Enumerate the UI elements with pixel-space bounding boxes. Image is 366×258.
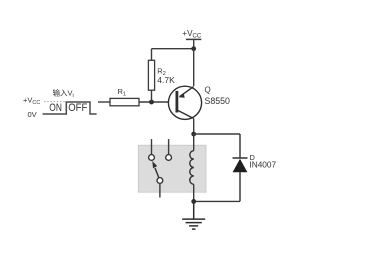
relay coil [190, 151, 194, 185]
svg-text:S8550: S8550 [205, 96, 231, 106]
svg-text:OFF: OFF [68, 102, 87, 114]
svg-text:0V: 0V [28, 110, 37, 119]
input waveform pulse [43, 102, 97, 114]
svg-text:R1: R1 [118, 87, 126, 98]
dotted Vcc reference line [44, 101, 66, 103]
relay body box [138, 145, 206, 192]
relay contact circle 3 [157, 178, 163, 184]
wire collector to coil [193, 134, 195, 151]
wire collector to diode top [194, 133, 240, 135]
svg-text:IN4007: IN4007 [249, 160, 276, 170]
node collector junction [191, 132, 196, 137]
node base junction [149, 100, 154, 105]
wire collector down [193, 119, 195, 135]
wire coil to ground node [193, 184, 195, 201]
svg-text:输入Vi: 输入Vi [53, 88, 74, 100]
svg-text:+VCC: +VCC [182, 29, 202, 40]
wire Vcc rail horizontal [152, 48, 195, 50]
wire Vcc junction to emitter [193, 49, 195, 86]
wire Vcc bar to junction [193, 39, 195, 48]
node Vcc junction [191, 46, 196, 51]
svg-text:Q: Q [205, 86, 211, 95]
wire ground node to diode bottom [194, 200, 240, 202]
relay contact circle 2 [166, 155, 172, 161]
svg-text:4.7K: 4.7K [157, 75, 175, 85]
ground [182, 201, 205, 229]
svg-text:ON: ON [49, 102, 62, 114]
relay switch arm with arrow [155, 168, 159, 178]
resistor R1 [110, 98, 139, 105]
relay contact circle 1 [149, 155, 155, 161]
power +Vcc bar [186, 38, 201, 40]
resistor R2 [148, 60, 154, 90]
wire relay contact 1 stub [151, 139, 153, 154]
diode D IN4007 [233, 134, 248, 201]
wire R2 top stub [151, 49, 153, 61]
wire relay contact 2 stub [168, 139, 170, 154]
wire relay contact 3 stub [159, 184, 161, 198]
wire R2 bottom stub [151, 90, 153, 102]
wire R1 to transistor base [139, 101, 169, 103]
transistor Q S8550 [168, 86, 201, 119]
wire input to R1 [98, 101, 110, 103]
node ground junction [191, 199, 196, 204]
svg-text:+VCC: +VCC [23, 95, 40, 106]
